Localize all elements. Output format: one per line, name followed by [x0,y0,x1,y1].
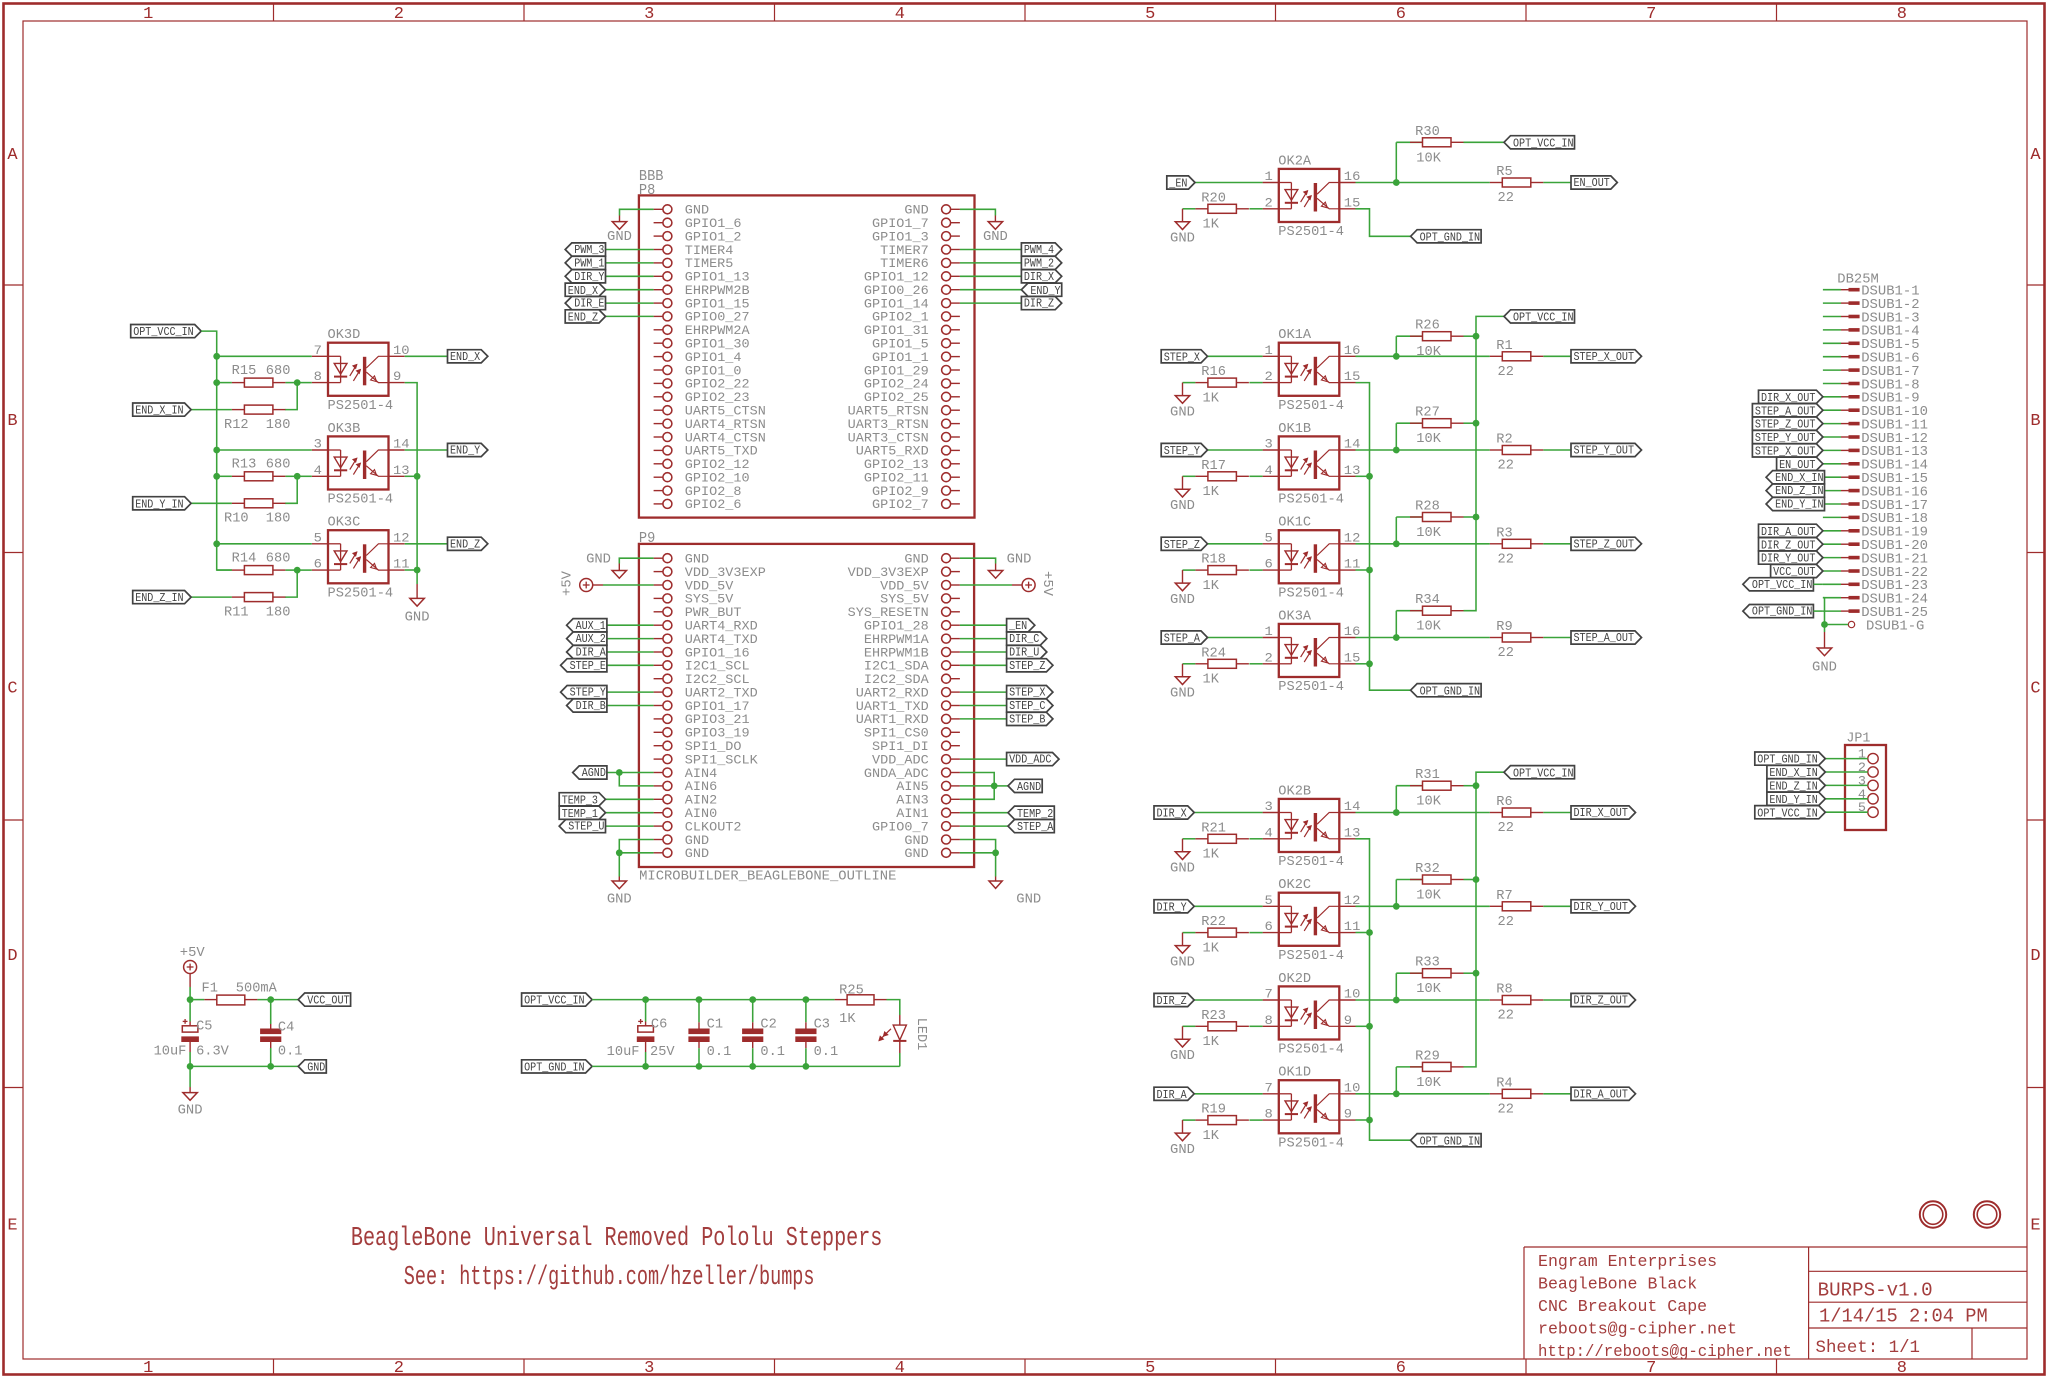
resistor R27 [1410,406,1464,448]
net flag EN_OUT [1571,176,1617,190]
DB25 pin DSUB1-15 [1823,471,1928,487]
svg-text:UART2_RXD: UART2_RXD [856,686,929,700]
wire LED1 to OPT_GND rail [899,1053,901,1066]
DB25 pin DSUB1-13 [1823,444,1928,460]
ground [1170,839,1195,877]
svg-text:B: B [2030,412,2040,431]
svg-text:GND: GND [1812,659,1837,675]
DB25 pin DSUB1-2 [1823,297,1920,313]
P8 left pin 18: UART4_CTSN [654,431,766,445]
wire P8 to PWM_2 [960,262,1022,264]
svg-text:2: 2 [1265,195,1273,210]
svg-text:5: 5 [1858,801,1866,815]
net flag DIR_E [565,297,605,311]
net flag OPT_VCC_IN [1504,136,1575,151]
mounting hole H2 [1974,1201,2000,1227]
svg-text:UART5_TXD: UART5_TXD [685,445,758,459]
wire P9 to STEP_B [960,718,1007,720]
wire _EN to OK2A [1195,182,1263,184]
P9 right pin 15: SPI1_DI [872,740,960,754]
svg-text:OPT_GND_IN: OPT_GND_IN [524,1061,585,1075]
svg-text:R9: R9 [1496,620,1512,635]
svg-text:VDD_5V: VDD_5V [880,579,929,593]
wire rail to OK3C anode [213,540,311,547]
wire opto emitters to GND [405,383,421,584]
wire OK2A collector to EN_OUT [1356,179,1572,186]
wire R30 to OPT_VCC_IN [1464,141,1505,143]
net flag OPT_VCC_IN [1743,578,1814,592]
P8 right pin 2: GPIO1_7 [872,217,960,231]
svg-text:A: A [2030,146,2041,165]
svg-text:6: 6 [1265,919,1273,934]
svg-text:3: 3 [644,1359,654,1378]
DB25 pin DSUB1-4 [1823,324,1920,340]
svg-text:1: 1 [1265,343,1273,358]
net flag END_Z [565,310,605,325]
P8 left pin 11: GPIO1_30 [654,338,750,352]
wire OK3D to END_X [405,355,448,357]
+5V supply symbol [184,961,197,974]
svg-text:PS2501-4: PS2501-4 [1278,680,1344,695]
svg-text:R34: R34 [1415,593,1440,608]
wire STEP_E to P9 [607,664,654,666]
svg-text:R28: R28 [1415,500,1440,515]
svg-text:GPIO2_6: GPIO2_6 [685,498,742,512]
svg-text:STEP_Y: STEP_Y [1164,444,1200,458]
svg-text:GND: GND [685,204,709,218]
svg-text:END_Y_IN: END_Y_IN [135,497,183,511]
net flag STEP_X [1161,350,1207,365]
svg-text:6: 6 [1396,1359,1406,1378]
fuse F1 500mA [202,981,278,1004]
svg-text:OK1D: OK1D [1278,1066,1311,1081]
net flag STEP_Z_OUT [1752,417,1823,432]
svg-text:R2: R2 [1496,433,1512,448]
wire AUX_2 to P9 [607,638,654,640]
wire OK3A collector to STEP_A_OUT [1356,634,1572,641]
wire P9 to DIR_C [960,638,1007,640]
ground [1812,632,1837,675]
resistor R30 [1410,125,1464,167]
svg-text:GND: GND [307,1061,325,1075]
svg-text:OPT_GND_IN: OPT_GND_IN [1420,684,1481,698]
svg-text:VDD_3V3EXP: VDD_3V3EXP [848,566,929,580]
resistor R15 [232,364,291,387]
wire OK2C collector to DIR_Y_OUT [1356,903,1572,910]
net flag END_Y_IN [1767,792,1825,807]
svg-text:DIR_C: DIR_C [1009,632,1039,646]
wire AGND to AIN4/AIN6 [607,769,654,786]
svg-text:10K: 10K [1416,889,1441,904]
ground [178,1087,203,1118]
svg-text:TIMER5: TIMER5 [685,257,734,271]
svg-text:GND: GND [1170,231,1195,247]
svg-text:C3: C3 [814,1017,830,1032]
wire END_X to P8 [606,289,654,291]
svg-text:7: 7 [1646,1359,1656,1378]
net flag _EN [1007,619,1035,633]
svg-text:OPT_VCC_IN: OPT_VCC_IN [524,994,585,1008]
svg-text:STEP_X: STEP_X [1009,686,1045,700]
svg-text:10K: 10K [1416,151,1441,166]
svg-text:DIR_Y: DIR_Y [1157,900,1187,914]
DB25 pin DSUB1-21 [1823,551,1928,567]
wire F1 to VCC_OUT [257,996,298,1003]
svg-text:+5V: +5V [180,945,205,961]
svg-text:8: 8 [1265,1013,1273,1028]
opto-coupler OK3C (PS2501-4) [312,516,410,602]
svg-text:Sheet: 1/1: Sheet: 1/1 [1816,1338,1921,1358]
P8 right pin 20: GPIO2_13 [864,458,960,472]
svg-text:END_Z_IN: END_Z_IN [1775,484,1823,498]
svg-text:5: 5 [1145,1359,1155,1378]
svg-text:VDD_ADC: VDD_ADC [872,753,929,767]
P8 right pin 16: UART5_RTSN [848,405,960,419]
svg-text:OPT_VCC_IN: OPT_VCC_IN [1513,766,1574,780]
resistor R17 [1195,459,1249,500]
net flag OPT_GND_IN [1743,605,1814,619]
ground [1170,1120,1195,1158]
svg-text:GPIO1_5: GPIO1_5 [872,338,929,352]
svg-text:STEP_C: STEP_C [1009,699,1045,713]
opto-coupler OK2B (PS2501-4) [1263,784,1361,870]
P8 left pin 2: GPIO1_6 [654,217,742,231]
svg-text:STEP_X_OUT: STEP_X_OUT [1574,350,1635,364]
svg-text:680: 680 [266,551,291,566]
wire END_Y_IN to R10 [191,502,232,504]
svg-text:END_Z: END_Z [450,537,480,551]
svg-text:1K: 1K [1203,391,1220,406]
svg-text:GND: GND [1170,592,1195,608]
net flag DIR_Y_OUT [1759,551,1823,566]
wire END_Z_IN to R11 [191,596,232,598]
P8 right pin 21: GPIO2_11 [864,472,960,486]
wire END_Y_IN to JP1-4 [1825,798,1868,800]
net flag VDD_ADC [1007,753,1059,767]
svg-text:END_Y: END_Y [450,444,480,458]
svg-text:GND: GND [1170,404,1195,420]
wire GND-R22 to OK2C cathode [1183,932,1263,934]
svg-text:8: 8 [314,369,322,384]
svg-text:DIR_Z_OUT: DIR_Z_OUT [1574,994,1628,1008]
net flag PWM_4 [1021,243,1061,257]
svg-text:Engram Enterprises: Engram Enterprises [1538,1252,1717,1271]
svg-text:GPIO2_13: GPIO2_13 [864,458,929,472]
wire END_X_IN to JP1-2 [1825,771,1868,773]
DB25 pin DSUB1-19 [1823,525,1928,541]
ground [607,877,632,908]
svg-text:10K: 10K [1416,526,1441,541]
net flag AGND [1008,779,1042,794]
DB25 pin DSUB1-G [1825,618,1925,634]
resistor R11 [224,593,290,621]
svg-text:GPIO2_10: GPIO2_10 [685,472,750,486]
net flag DIR_Z_OUT [1759,538,1823,553]
opto-coupler OK1A (PS2501-4) [1263,328,1361,414]
wire rail to R15 [217,379,312,409]
ground [1170,209,1195,247]
svg-text:1K: 1K [1203,1129,1220,1144]
P8 right pin 3: GPIO1_3 [872,230,960,244]
P9 right pin 22: GND [904,834,960,848]
svg-text:GND: GND [904,847,928,861]
svg-text:R25: R25 [839,984,864,999]
svg-text:GPIO1_0: GPIO1_0 [685,364,742,378]
resistor R23 [1195,1009,1249,1050]
svg-text:8: 8 [1897,5,1907,24]
P8 right pin 12: GPIO1_1 [872,351,960,365]
svg-text:5: 5 [1145,5,1155,24]
P8 left pin 16: UART5_CTSN [654,405,766,419]
P8 left pin 22: GPIO2_8 [654,485,742,499]
svg-text:PWM_2: PWM_2 [1024,257,1054,271]
P9 right pin 12: UART1_TXD [856,700,960,714]
svg-text:DIR_X_OUT: DIR_X_OUT [1574,806,1628,820]
net flag END_Z_IN [133,591,191,606]
wire TEMP_1 to P9 [606,812,654,814]
wire R32 pull-up [1396,880,1422,907]
svg-text:_EN: _EN [1168,177,1187,191]
svg-text:GND: GND [607,892,632,908]
+5V supply symbol [1022,579,1035,592]
wire R31 pull-up [1396,786,1422,813]
resistor R34 [1410,593,1464,635]
svg-text:DIR_Y_OUT: DIR_Y_OUT [1574,900,1628,914]
wire to C6 [645,1000,647,1067]
resistor R20 [1195,191,1249,232]
DB25 pin DSUB1-1 [1823,284,1920,300]
+5V supply [180,945,205,961]
resistor R25 [839,984,886,1027]
capacitor C6 (electrolytic) [637,1019,655,1042]
wire GND-R24 to OK3A cathode [1183,663,1263,665]
wire R26 pull-up [1396,336,1422,356]
svg-text:OK2B: OK2B [1278,784,1311,799]
svg-text:10K: 10K [1416,795,1441,810]
svg-text:GPIO2_12: GPIO2_12 [685,458,750,472]
svg-text:DIR_A: DIR_A [576,646,607,660]
svg-text:EHRPWM2B: EHRPWM2B [685,284,750,298]
net flag PWM_3 [565,243,605,257]
resistor R7 [1490,889,1544,930]
net flag END_Z [448,537,488,551]
svg-text:PS2501-4: PS2501-4 [1278,587,1344,602]
P9 left pin 9: I2C1_SCL [654,660,750,674]
net flag STEP_X_OUT [1752,444,1823,459]
svg-text:R3: R3 [1496,526,1512,541]
P9 right pin 7: EHRPWM1A [864,633,960,647]
net flag PWM_1 [565,256,605,270]
wire PWM_3 to P8 [606,249,654,251]
resistor R4 [1490,1076,1544,1117]
svg-text:R11: R11 [224,606,249,621]
P9 left pin 21: CLKOUT2 [654,820,742,834]
P9 left pin 18: AIN6 [654,780,718,794]
svg-text:OK2D: OK2D [1278,972,1311,987]
wire STEP_X to OK1A [1208,355,1263,357]
svg-text:STEP_E: STEP_E [570,659,606,673]
wire END_Z_IN to JP1-3 [1825,784,1868,786]
svg-text:GPIO3_21: GPIO3_21 [685,713,750,727]
wire P9 right GND pins to ground [960,840,1041,908]
DB25 pin DSUB1-9 [1823,391,1920,407]
net flag TEMP_2 [1008,806,1054,821]
svg-text:180: 180 [266,512,291,527]
wire OPT_GND rail [592,1063,900,1070]
svg-text:9: 9 [1344,1013,1352,1028]
capacitor C1 [688,1000,731,1067]
svg-text:DIR_X: DIR_X [1024,270,1054,284]
svg-text:DIR_B: DIR_B [576,699,606,713]
svg-text:DIR_A_OUT: DIR_A_OUT [1574,1087,1628,1101]
net flag STEP_Z [1007,659,1053,673]
P9 left pin 11: UART2_TXD [654,686,758,700]
svg-text:OPT_GND_IN: OPT_GND_IN [1420,230,1481,244]
svg-text:R7: R7 [1496,889,1512,904]
svg-text:PS2501-4: PS2501-4 [1278,493,1344,508]
P8 left pin 8: GPIO1_15 [654,297,750,311]
svg-text:10K: 10K [1416,345,1441,360]
P8 left pin 20: GPIO2_12 [654,458,750,472]
svg-text:OPT_VCC_IN: OPT_VCC_IN [133,325,194,339]
wire rail to OK3B anode [213,447,311,454]
P9 left pin 10: I2C2_SCL [654,673,750,687]
svg-text:END_Z: END_Z [568,311,598,325]
svg-text:1: 1 [143,5,153,24]
net flag DIR_U [1007,645,1047,659]
P8 left pin 1: GND [654,204,710,218]
net flag END_X_IN [1766,471,1824,485]
svg-text:25V: 25V [650,1045,675,1060]
net flag OPT_GND_IN [1411,684,1482,699]
resistor R33 [1410,956,1464,998]
wire +5V to P9 VDD_5V [593,584,654,586]
P9 right pin 16: VDD_ADC [872,753,960,767]
P9 right pin 3: VDD_5V [880,579,960,593]
svg-text:R30: R30 [1415,125,1440,140]
svg-text:UART5_CTSN: UART5_CTSN [685,405,766,419]
wire OK3C to END_Z [405,543,448,545]
wire END_X_IN to R12 [191,409,232,411]
svg-text:PWM_3: PWM_3 [574,243,604,257]
svg-text:PS2501-4: PS2501-4 [328,399,394,414]
svg-text:UART4_RTSN: UART4_RTSN [685,418,766,432]
wire OK2D collector to DIR_Z_OUT [1356,997,1572,1004]
svg-text:PS2501-4: PS2501-4 [1278,1043,1344,1058]
svg-text:GND: GND [607,229,632,245]
svg-text:GPIO2_11: GPIO2_11 [864,472,929,486]
svg-text:2: 2 [394,5,404,24]
resistor R8 [1490,983,1544,1024]
svg-text:C5: C5 [196,1019,212,1034]
svg-text:OPT_VCC_IN: OPT_VCC_IN [1513,136,1574,150]
net flag STEP_X [1007,686,1053,700]
svg-text:EN_OUT: EN_OUT [1574,176,1610,190]
P8 left pin 12: GPIO1_4 [654,351,742,365]
svg-text:DIR_A: DIR_A [1157,1088,1188,1102]
svg-text:GPIO1_3: GPIO1_3 [872,230,929,244]
P8 right pin 22: GPIO2_9 [872,485,960,499]
DB25 pin DSUB1-23 [1823,578,1928,594]
P8 left pin 19: UART5_TXD [654,445,758,459]
wire DIR_A to P9 [607,651,654,653]
svg-text:OPT_GND_IN: OPT_GND_IN [1752,605,1813,619]
svg-text:D: D [2030,947,2040,966]
svg-text:AIN5: AIN5 [896,780,928,794]
wire to C5 [189,1000,191,1026]
svg-text:_EN: _EN [1008,619,1027,633]
svg-text:UART5_RTSN: UART5_RTSN [848,405,929,419]
net flag END_X_IN [1767,765,1825,780]
wire P9 pin1 GND [586,552,654,568]
DB25 pin DSUB1-7 [1823,364,1920,380]
svg-text:1K: 1K [1203,848,1220,863]
net flag DIR_X_OUT [1571,806,1636,820]
svg-text:6: 6 [314,557,322,572]
connector P8 (BBB) [639,168,975,517]
wire AUX_1 to P9 [607,624,654,626]
svg-text:2: 2 [1265,369,1273,384]
net flag PWM_2 [1021,256,1061,270]
capacitor C5 (electrolytic) [181,1019,199,1042]
P9 right pin 1: GND [904,553,960,567]
svg-text:GND: GND [586,552,611,568]
net flag DIR_A_OUT [1759,524,1823,539]
P8 right pin 11: GPIO1_5 [872,338,960,352]
svg-text:GPIO1_2: GPIO1_2 [685,230,742,244]
wire P9 right pin1 GND [960,552,1032,568]
svg-text:7: 7 [1265,987,1273,1002]
svg-text:UART4_CTSN: UART4_CTSN [685,431,766,445]
svg-text:R16: R16 [1201,365,1226,380]
svg-text:AIN4: AIN4 [685,767,717,781]
net flag END_Z_IN [1767,779,1825,794]
wire GND-R20 to OK2A cathode [1183,208,1263,210]
svg-text:OK3D: OK3D [328,328,361,343]
resistor R9 [1490,620,1544,661]
opto-coupler OK1C (PS2501-4) [1263,516,1361,602]
svg-text:DIR_Z: DIR_Z [1157,994,1187,1008]
svg-text:GPIO1_16: GPIO1_16 [685,646,750,660]
P8 right pin 15: GPIO2_25 [864,391,960,405]
svg-text:AUX_2: AUX_2 [576,632,606,646]
net flag OPT_VCC_IN [1504,310,1575,325]
net flag OPT_VCC_IN [1504,766,1575,781]
net flag DIR_Z_OUT [1571,993,1636,1007]
svg-text:STEP_Y: STEP_Y [570,686,606,700]
wire P8 to PWM_4 [960,249,1022,251]
wire DIR_Y to OK2C [1194,905,1262,907]
net flag DIR_Z [1154,993,1194,1008]
resistor R21 [1195,821,1249,862]
svg-text:R17: R17 [1201,459,1226,474]
P9 right pin 9: I2C1_SDA [864,660,960,674]
svg-text:GPIO1_31: GPIO1_31 [864,324,929,338]
wire P9 VDD_ADC [960,758,1007,760]
svg-text:DIR_E: DIR_E [574,297,604,311]
DB25 pin DSUB1-12 [1823,431,1928,447]
P9 left pin 4: SYS_5V [654,593,734,607]
svg-text:OK2A: OK2A [1278,154,1312,169]
svg-text:22: 22 [1498,1009,1514,1024]
wire rail to OK3D anode [213,353,311,360]
svg-text:R24: R24 [1201,646,1226,661]
svg-text:STEP_Z_OUT: STEP_Z_OUT [1574,537,1635,551]
wire P9 GND pins to ground [616,840,654,877]
svg-text:BeagleBone Black: BeagleBone Black [1538,1275,1697,1294]
wire P9 to STEP_C [960,705,1007,707]
svg-text:E: E [7,1216,17,1235]
